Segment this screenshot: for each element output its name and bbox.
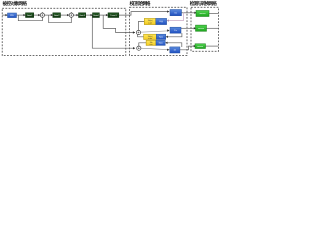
svg-text:Gain3: Gain3 — [79, 15, 85, 17]
svg-text:sensor: sensor — [199, 13, 205, 15]
svg-text:sensor: sensor — [197, 46, 203, 48]
svg-text:1/s: 1/s — [174, 12, 177, 14]
svg-text:Gain4: Gain4 — [93, 15, 99, 17]
svg-text:Trans1: Trans1 — [110, 14, 117, 17]
svg-text:检测与转换网络: 检测与转换网络 — [190, 0, 217, 7]
svg-text:校正综合网络: 校正综合网络 — [130, 0, 151, 7]
svg-text:1/s: 1/s — [173, 50, 176, 52]
svg-text:K(s): K(s) — [159, 43, 163, 45]
svg-text:被控对象网络: 被控对象网络 — [3, 0, 28, 7]
svg-text:Gain1: Gain1 — [27, 15, 33, 17]
svg-text:PID: PID — [10, 15, 14, 17]
svg-text:K(s): K(s) — [159, 37, 163, 39]
svg-text:s+wn: s+wn — [148, 38, 152, 40]
svg-text:Gain2: Gain2 — [54, 15, 60, 17]
svg-text:1/s: 1/s — [174, 30, 177, 32]
svg-text:K(s): K(s) — [159, 21, 163, 23]
svg-text:sensor: sensor — [198, 28, 204, 30]
svg-text:s+wn: s+wn — [148, 23, 152, 25]
